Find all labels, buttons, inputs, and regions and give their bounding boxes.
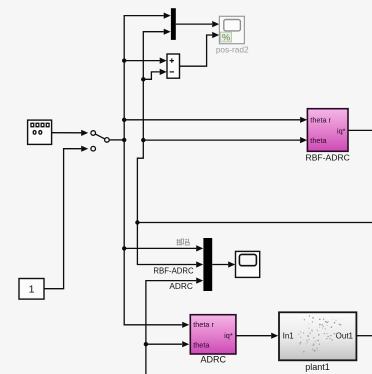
- ADRC subsystem block: [190, 315, 236, 354]
- scope pos-rad2 (commented out): [219, 16, 244, 43]
- wire sum output to scope input 2: [180, 32, 220, 66]
- wire branch A to RBF-ADRC theta r: [122, 117, 307, 123]
- svg-text:RBF-ADRC: RBF-ADRC: [153, 266, 194, 275]
- svg-text:theta r: theta r: [310, 115, 331, 124]
- sum block: [167, 54, 180, 78]
- svg-text:theta: theta: [193, 340, 210, 349]
- label plant1: [305, 362, 330, 372]
- signal builder block: [28, 120, 52, 144]
- wire branch A to sum plus: [122, 58, 167, 64]
- svg-text:1: 1: [29, 284, 35, 296]
- wire branch B to RBF-ADRC theta: [141, 137, 307, 143]
- wire feedback line B up to mux1 input 2: [137, 29, 170, 223]
- wire mux2 output to scope2: [212, 261, 235, 267]
- signal label RBF-ADRC at mux2: [153, 266, 194, 275]
- svg-text:iq*: iq*: [224, 331, 233, 340]
- svg-text:pos-rad2: pos-rad2: [216, 45, 249, 55]
- svg-text:RBF-ADRC: RBF-ADRC: [305, 153, 349, 163]
- wire desired main line A: [124, 13, 189, 328]
- wire switch output to node A: [109, 138, 126, 142]
- wire RBF-ADRC output to right edge: [348, 129, 372, 131]
- svg-text:ADRC: ADRC: [200, 355, 226, 365]
- svg-text:In1: In1: [283, 331, 295, 340]
- svg-text:%: %: [222, 32, 231, 43]
- scope2 block: [236, 251, 260, 277]
- svg-text:iq*: iq*: [337, 126, 346, 135]
- svg-text:theta r: theta r: [193, 320, 214, 329]
- svg-text:ADRC: ADRC: [169, 281, 193, 291]
- wire branch B to sum minus: [141, 69, 167, 82]
- wire constant to switch input 2: [44, 146, 88, 289]
- plant1 subsystem block: [279, 312, 356, 360]
- label pos-rad2: [216, 45, 249, 55]
- svg-text:plant1: plant1: [305, 362, 330, 372]
- wire branch A to mux2 input 1: [122, 245, 203, 251]
- wire mux1 to scope pos-rad2: [176, 21, 219, 27]
- constant block 1: [19, 279, 44, 300]
- manual switch: [91, 131, 109, 151]
- signal label desired (CJK): [177, 239, 190, 245]
- wire feedback line B down to mux2 input 2: [137, 223, 203, 268]
- signal label ADRC at mux2: [169, 281, 193, 291]
- label ADRC: [200, 355, 226, 365]
- mux2: [203, 238, 212, 291]
- svg-text:theta: theta: [310, 136, 327, 145]
- mux1: [171, 8, 176, 40]
- label RBF-ADRC: [305, 153, 349, 163]
- svg-text:Out1: Out1: [336, 331, 354, 340]
- wire builder to switch input 1: [52, 130, 89, 136]
- wire ADRC feedback line C: [144, 278, 204, 374]
- RBF-ADRC subsystem block: [307, 109, 348, 152]
- wire plant1 output to right edge: [356, 335, 372, 337]
- wire ADRC output to plant1: [236, 333, 278, 339]
- wire feedback line from right edge: [135, 220, 372, 224]
